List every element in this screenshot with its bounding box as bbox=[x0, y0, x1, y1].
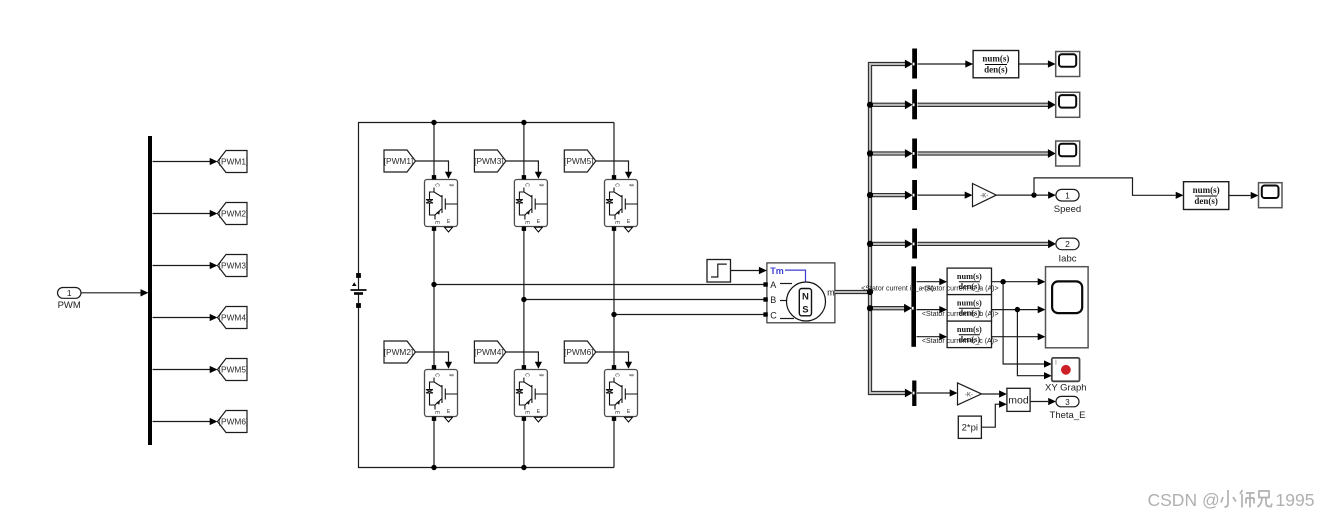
svg-text:2: 2 bbox=[1065, 239, 1070, 249]
wire phase B bbox=[521, 297, 763, 302]
wire phase A bbox=[431, 282, 763, 287]
wire inverter leg x=433.5 bbox=[433, 123, 435, 468]
from tag PWM2 bbox=[384, 341, 416, 363]
selector 2 bbox=[912, 89, 917, 119]
step block Tm bbox=[707, 260, 731, 283]
IGBT block Q4 lower bbox=[514, 365, 547, 422]
svg-text:[PWM1]: [PWM1] bbox=[384, 156, 414, 166]
wire TF4 to scope4 bbox=[1229, 192, 1259, 199]
IGBT block Q1 upper bbox=[425, 175, 458, 232]
from tag PWM6 bbox=[564, 341, 596, 363]
svg-text:1: 1 bbox=[1065, 191, 1070, 201]
selector 4 bbox=[912, 180, 917, 210]
svg-text:Speed: Speed bbox=[1054, 204, 1081, 215]
wire gate PWM1 bbox=[416, 161, 453, 179]
selector 7 bbox=[912, 381, 916, 407]
wire inverter leg x=523.4 bbox=[523, 123, 525, 468]
junction dots bus bbox=[867, 102, 873, 312]
wire gate PWM6 bbox=[596, 352, 632, 369]
svg-text:[PWM4]: [PWM4] bbox=[474, 347, 504, 357]
svg-text:N: N bbox=[802, 292, 809, 303]
svg-text:PWM: PWM bbox=[58, 300, 81, 311]
scope scope2 bbox=[1056, 92, 1080, 117]
wire bus selector to TF ic bbox=[917, 333, 948, 340]
IGBT block Q3 upper bbox=[514, 175, 547, 232]
wire branch to TF4 bbox=[1034, 178, 1184, 199]
svg-text:C: C bbox=[770, 310, 777, 320]
wire branch ib to XY Graph bbox=[1015, 307, 1052, 379]
svg-text:g: g bbox=[629, 374, 635, 377]
IGBT block Q6 lower bbox=[605, 365, 638, 422]
wire gain K2 to mod bbox=[982, 390, 1007, 397]
wire TF ia to scope Iabc bbox=[992, 278, 1046, 285]
outport 3 Theta_E bbox=[1050, 396, 1086, 421]
gain K2 bbox=[958, 383, 982, 405]
svg-text:den(s): den(s) bbox=[1194, 196, 1218, 206]
svg-text:2*pi: 2*pi bbox=[962, 423, 978, 434]
svg-text:[PWM3]: [PWM3] bbox=[474, 156, 504, 166]
wire selector7 to gain K2 bbox=[917, 389, 958, 396]
wire demux to goto PWM5 bbox=[153, 366, 218, 373]
svg-text:[PWM1]: [PWM1] bbox=[219, 157, 249, 167]
wire demux to goto PWM6 bbox=[153, 418, 218, 425]
selector 1 bbox=[912, 49, 917, 79]
wire bus selector to TF ia bbox=[917, 278, 948, 285]
wire inverter leg x=613.5 bbox=[613, 123, 615, 468]
scope Iabc big bbox=[1046, 267, 1089, 348]
wire selector4 to gain K1 bbox=[918, 192, 973, 199]
wire step to Tm bbox=[731, 267, 767, 274]
goto tag PWM4 bbox=[218, 307, 249, 329]
wire gate PWM2 bbox=[416, 352, 453, 369]
bus arrowheads bbox=[904, 60, 1056, 398]
svg-text:g: g bbox=[629, 184, 635, 187]
svg-text:3: 3 bbox=[1065, 398, 1070, 407]
wire demux to goto PWM3 bbox=[153, 262, 218, 269]
wire gate PWM4 bbox=[506, 352, 542, 369]
bus selector stator currents bbox=[911, 266, 916, 346]
wire TF1 to scope1 bbox=[1019, 60, 1056, 67]
svg-text:g: g bbox=[538, 374, 544, 377]
svg-text:[PWM2]: [PWM2] bbox=[384, 347, 414, 357]
scope scope1 bbox=[1056, 52, 1080, 77]
wire 2*pi to mod bbox=[981, 401, 1007, 428]
svg-text:den(s): den(s) bbox=[984, 64, 1008, 74]
svg-text:num(s): num(s) bbox=[1193, 185, 1220, 195]
wire TF ib to scope Iabc bbox=[992, 306, 1046, 313]
svg-text:[PWM5]: [PWM5] bbox=[219, 365, 249, 375]
svg-text:[PWM3]: [PWM3] bbox=[219, 261, 249, 271]
constant 2*pi bbox=[958, 416, 981, 438]
svg-text:C: C bbox=[614, 373, 620, 377]
wire bus selector to TF ib bbox=[917, 306, 948, 313]
outport 1 Speed bbox=[1054, 189, 1081, 215]
gain K1 bbox=[973, 184, 997, 207]
svg-text:Theta_E: Theta_E bbox=[1050, 410, 1086, 421]
svg-text:[PWM6]: [PWM6] bbox=[219, 417, 249, 427]
svg-text:XY Graph: XY Graph bbox=[1045, 383, 1087, 394]
selector 3 bbox=[912, 139, 917, 169]
DC voltage source battery bbox=[351, 273, 367, 308]
bus network vector signals bbox=[835, 64, 1051, 393]
goto tag PWM1 bbox=[218, 151, 249, 173]
IGBT block Q5 upper bbox=[605, 175, 638, 232]
svg-text:C: C bbox=[523, 373, 529, 377]
scope scope3 bbox=[1056, 141, 1080, 166]
wire gate PWM3 bbox=[506, 161, 542, 179]
transfer function TF4 num(s)/den(s) bbox=[1184, 182, 1229, 210]
transfer function TF ib num(s)/den(s) bbox=[947, 295, 991, 322]
svg-text:num(s): num(s) bbox=[957, 325, 982, 334]
mod block bbox=[1007, 388, 1030, 411]
transfer function TF ic num(s)/den(s) bbox=[947, 321, 991, 348]
svg-text:1995: 1995 bbox=[1276, 490, 1315, 510]
goto tag PWM5 bbox=[218, 359, 249, 381]
svg-text:[PWM2]: [PWM2] bbox=[219, 209, 249, 219]
svg-text:mod: mod bbox=[1008, 395, 1029, 407]
svg-text:Tm: Tm bbox=[770, 266, 784, 276]
svg-text:-K-: -K- bbox=[965, 392, 973, 398]
wire demux to goto PWM4 bbox=[153, 314, 218, 321]
transfer function TF1 num(s)/den(s) bbox=[973, 51, 1019, 78]
svg-text:num(s): num(s) bbox=[957, 272, 982, 281]
svg-text:<Stator current is_b (A)>: <Stator current is_b (A)> bbox=[922, 311, 999, 318]
svg-text:[PWM6]: [PWM6] bbox=[564, 347, 594, 357]
svg-text:B: B bbox=[770, 295, 776, 305]
transfer function TF ia num(s)/den(s) bbox=[947, 268, 991, 295]
watermark CSDN bbox=[1148, 490, 1315, 510]
svg-text:S: S bbox=[802, 305, 808, 316]
svg-text:-K-: -K- bbox=[980, 193, 988, 199]
XY Graph block bbox=[1045, 358, 1087, 394]
inport 1 PWM bbox=[58, 288, 82, 312]
wire gain K1 to outport Speed bbox=[996, 192, 1056, 199]
svg-text:g: g bbox=[538, 184, 544, 187]
wire phase C bbox=[611, 312, 763, 317]
goto tag PWM6 bbox=[218, 411, 249, 433]
svg-text:1: 1 bbox=[67, 288, 72, 298]
from tag PWM5 bbox=[564, 150, 596, 172]
wire selector1 to TF1 bbox=[918, 60, 974, 67]
demux bar bbox=[148, 136, 152, 445]
wire TF ic to scope Iabc bbox=[992, 333, 1046, 340]
svg-text:C: C bbox=[614, 183, 620, 187]
wire gate PWM5 bbox=[596, 161, 632, 179]
svg-text:[PWM5]: [PWM5] bbox=[564, 156, 594, 166]
outport 2 Iabc bbox=[1056, 238, 1079, 264]
from tag PWM1 bbox=[384, 150, 416, 172]
from tag PWM4 bbox=[474, 341, 506, 363]
svg-text:m: m bbox=[827, 287, 835, 297]
junction dots bridge buses bbox=[431, 120, 526, 470]
svg-text:[PWM4]: [PWM4] bbox=[219, 313, 249, 323]
svg-text:num(s): num(s) bbox=[957, 298, 982, 307]
svg-text:num(s): num(s) bbox=[982, 54, 1009, 64]
svg-text:<Stator current is_c (A)>: <Stator current is_c (A)> bbox=[922, 338, 998, 345]
from tag PWM3 bbox=[474, 150, 506, 172]
wire DC bottom bus bbox=[359, 123, 615, 276]
wire mod to outport Theta_E bbox=[1030, 398, 1056, 405]
wire DC top bus bbox=[359, 306, 615, 468]
goto tag PWM2 bbox=[218, 203, 249, 225]
IGBT block Q2 lower bbox=[425, 365, 458, 422]
selector 5 bbox=[912, 229, 917, 259]
wire branch ia to XY Graph bbox=[1000, 279, 1051, 368]
svg-text:Iabc: Iabc bbox=[1059, 254, 1077, 265]
svg-text:CSDN @: CSDN @ bbox=[1148, 490, 1220, 510]
wire demux to goto PWM2 bbox=[153, 210, 218, 217]
svg-text:g: g bbox=[449, 374, 455, 377]
svg-text:C: C bbox=[434, 373, 440, 377]
scope scope4 bbox=[1259, 183, 1283, 208]
wire demux to goto PWM1 bbox=[153, 158, 218, 165]
svg-text:C: C bbox=[434, 183, 440, 187]
wire PWM to demux bbox=[81, 289, 149, 296]
svg-text:g: g bbox=[449, 184, 455, 187]
PMSM motor block bbox=[763, 263, 835, 323]
svg-text:<Stator current is_a (A)>: <Stator current is_a (A)> bbox=[922, 286, 999, 293]
goto tag PWM3 bbox=[218, 255, 249, 277]
svg-text:A: A bbox=[770, 280, 776, 290]
svg-text:C: C bbox=[523, 183, 529, 187]
